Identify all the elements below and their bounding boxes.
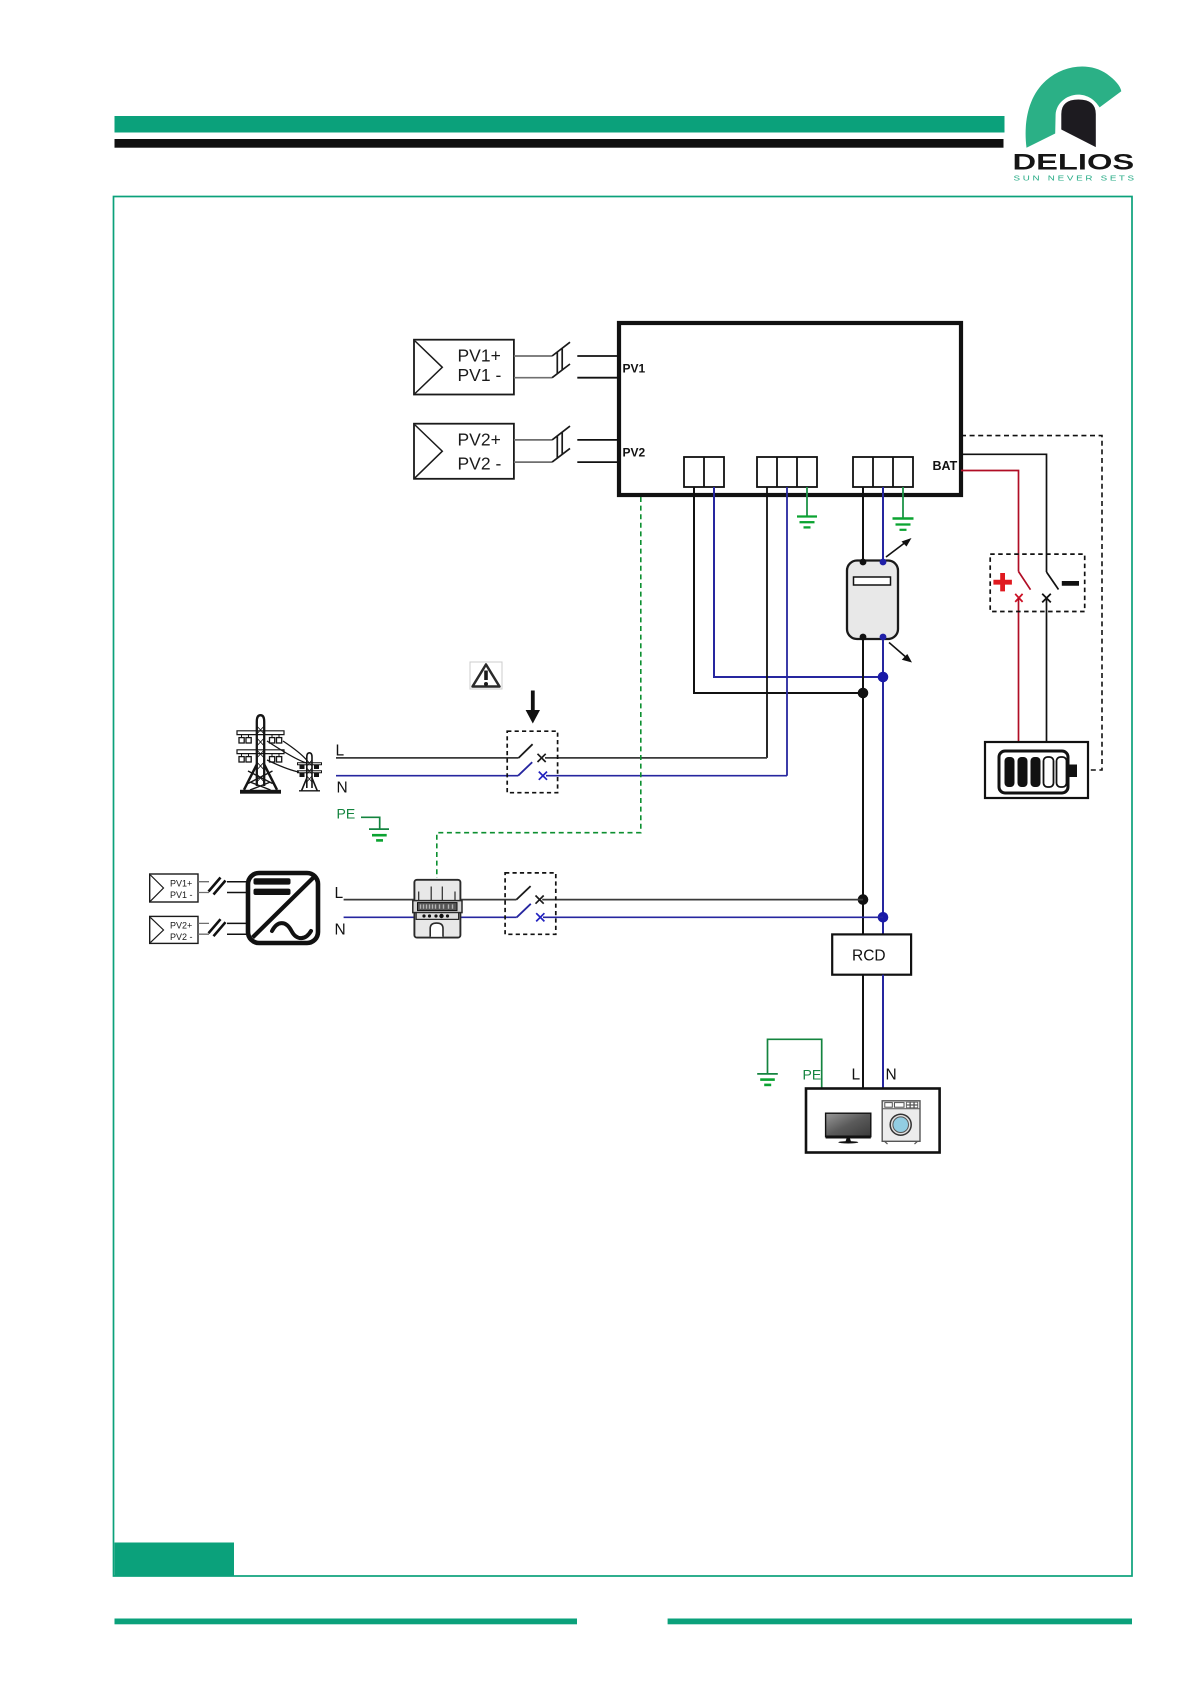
PV2 source chevron bbox=[415, 425, 442, 478]
breaker S1 L x bbox=[538, 754, 546, 762]
breaker S3 plus blade bbox=[1019, 572, 1031, 590]
PV1 string source box bbox=[414, 340, 514, 395]
header green bar bbox=[115, 116, 1005, 133]
AC meter M2 body bbox=[413, 880, 462, 938]
breaker S2 dashed box bbox=[505, 873, 556, 934]
footer rule right bbox=[668, 1619, 1132, 1625]
loads box bbox=[806, 1089, 940, 1153]
node C junction dot bbox=[858, 894, 869, 905]
svg-text:L: L bbox=[852, 1066, 861, 1083]
battery B1 cell 5 bbox=[1057, 757, 1067, 787]
wire PV2+ to inverter bbox=[577, 439, 619, 441]
sPV1 connector mark bbox=[209, 878, 226, 895]
breaker S1 N blade bbox=[518, 762, 532, 776]
washing machine icon bbox=[882, 1101, 920, 1144]
battery B1 icon shell bbox=[999, 751, 1068, 793]
warning sign frame bbox=[470, 662, 502, 689]
breaker S3 dashed box bbox=[990, 554, 1084, 611]
U2 sine wave bbox=[272, 923, 311, 938]
sPV1 chevron bbox=[150, 875, 163, 901]
wire PV1- from source bbox=[514, 377, 552, 379]
svg-text:PE: PE bbox=[803, 1066, 822, 1082]
battery B1 cell 4 bbox=[1044, 757, 1054, 787]
svg-text:PV2 -: PV2 - bbox=[458, 453, 502, 473]
PE wire loads bbox=[768, 1039, 822, 1088]
breaker S2 L blade bbox=[516, 886, 530, 900]
header black bar bbox=[115, 139, 1004, 148]
sPV2 chevron bbox=[150, 917, 163, 942]
TV icon bbox=[826, 1113, 871, 1143]
logo black arch bbox=[1061, 100, 1096, 148]
svg-text:PE: PE bbox=[337, 806, 356, 822]
wire RCD L to loads bbox=[862, 975, 864, 1089]
PE wire grid bbox=[361, 817, 380, 829]
down arrow bbox=[526, 691, 540, 724]
svg-text:L: L bbox=[335, 885, 344, 902]
terminal block TB2 bbox=[757, 457, 817, 487]
sPV2 connector mark bbox=[209, 919, 226, 936]
wire PV1- to inverter bbox=[577, 377, 619, 379]
svg-text:N: N bbox=[335, 922, 346, 939]
wire TB1 N to node B bbox=[714, 487, 883, 677]
node A junction dot bbox=[858, 688, 869, 699]
breaker S2 L x bbox=[536, 896, 544, 904]
AC wire N bbox=[344, 916, 883, 918]
svg-text:PV2 -: PV2 - bbox=[170, 932, 193, 942]
battery B1 terminal nub bbox=[1068, 765, 1077, 778]
content frame bbox=[114, 197, 1133, 1577]
svg-text:PV1+: PV1+ bbox=[458, 346, 501, 366]
wire TB3 L to meter bbox=[862, 487, 864, 562]
ground G2 bbox=[893, 519, 914, 530]
svg-text:RCD: RCD bbox=[852, 948, 886, 965]
meter M1 terminal dot top L bbox=[860, 559, 867, 566]
logo green swoosh bbox=[1026, 66, 1122, 147]
svg-text:S U N N E V E R S E T S: S U N N E V E R S E T S bbox=[1014, 174, 1135, 183]
grid tower small bbox=[298, 753, 322, 791]
terminal block TB3 bbox=[853, 457, 913, 487]
wire plus to battery bbox=[1018, 598, 1020, 742]
ground G3 bbox=[369, 829, 389, 840]
meter M1 arrow down bbox=[889, 643, 912, 663]
battery B1 cell 3 bbox=[1031, 757, 1041, 787]
PV2 string source box bbox=[414, 424, 514, 479]
wire PV1+ from source bbox=[514, 355, 552, 357]
grid tower large bbox=[237, 715, 284, 794]
grid wire L bbox=[336, 757, 767, 759]
AC wire L bbox=[344, 899, 863, 901]
PV1 source chevron bbox=[415, 341, 442, 394]
U2 diagonal bbox=[253, 877, 315, 938]
breaker S3 plus sign bbox=[993, 573, 1012, 591]
svg-text:N: N bbox=[337, 780, 348, 797]
wire PV2- to inverter bbox=[577, 461, 619, 463]
inverter U1 box bbox=[619, 323, 961, 495]
PV source sPV2 box bbox=[150, 916, 198, 943]
wire TB3 N to meter bbox=[882, 487, 884, 562]
RCD box bbox=[832, 934, 911, 974]
sPV1 wires to inverter icon bbox=[227, 882, 246, 893]
wire RCD N to loads bbox=[882, 975, 884, 1089]
sPV1 wires to connector bbox=[198, 882, 209, 893]
meter M1 display window bbox=[854, 577, 891, 585]
breaker S3 plus x bbox=[1015, 594, 1022, 602]
wire TB2 PE bbox=[806, 487, 808, 517]
battery B1 cell 1 bbox=[1005, 757, 1015, 787]
warning sign triangle bbox=[473, 665, 500, 687]
breaker S1 N x bbox=[539, 772, 547, 780]
meter M1 terminal dot bottom N bbox=[880, 634, 887, 641]
svg-text:PV1: PV1 bbox=[623, 362, 646, 376]
ground G1 bbox=[797, 517, 817, 528]
breaker S3 minus x bbox=[1042, 594, 1051, 603]
connector J2 blades bbox=[552, 426, 570, 462]
terminal block TB1 bbox=[684, 457, 724, 487]
svg-text:PV1 -: PV1 - bbox=[170, 890, 193, 900]
PV source sPV1 box bbox=[150, 874, 198, 902]
svg-text:BAT: BAT bbox=[933, 459, 958, 473]
wire TB3 PE bbox=[902, 487, 904, 519]
svg-text:PV2+: PV2+ bbox=[458, 429, 501, 449]
grid-tie inverter U2 icon bbox=[248, 873, 318, 943]
battery B1 outer box bbox=[985, 742, 1088, 798]
svg-text:PV2+: PV2+ bbox=[170, 921, 192, 931]
wire BAT minus bbox=[961, 454, 1047, 572]
ground G4 bbox=[757, 1074, 778, 1085]
svg-text:L: L bbox=[336, 743, 345, 760]
svg-text:N: N bbox=[886, 1066, 897, 1083]
wire TB2 N to grid N bbox=[786, 487, 788, 776]
wire BAT comm dashed bbox=[961, 436, 1102, 770]
wire PV2- from source bbox=[514, 461, 552, 463]
connector J2 ticks bbox=[557, 432, 562, 458]
U2 DC bar 2 bbox=[254, 889, 291, 895]
wire TB1 L to node A bbox=[694, 487, 863, 693]
battery B1 cell 2 bbox=[1018, 757, 1028, 787]
svg-text:DELIOS: DELIOS bbox=[1013, 150, 1135, 175]
footer rule left bbox=[115, 1619, 578, 1625]
node D junction dot bbox=[878, 912, 889, 923]
meter M1 terminal dot bottom L bbox=[860, 634, 867, 641]
breaker S2 N blade bbox=[517, 904, 531, 918]
energy meter M1 body bbox=[847, 561, 898, 640]
breaker S2 N x bbox=[536, 913, 544, 921]
node B junction dot bbox=[878, 672, 889, 683]
sPV2 wires to inverter icon bbox=[227, 923, 246, 934]
footer green block bbox=[115, 1543, 235, 1577]
breaker S3 minus blade bbox=[1047, 572, 1059, 590]
connector J1 ticks bbox=[557, 348, 562, 374]
breaker S1 dashed box bbox=[507, 731, 557, 793]
wire PV1+ to inverter bbox=[577, 355, 619, 357]
breaker S3 minus sign bbox=[1062, 581, 1079, 586]
svg-text:PV1+: PV1+ bbox=[170, 879, 192, 889]
wire minus to battery bbox=[1046, 598, 1048, 742]
PE dashed link inverter to meter bbox=[437, 497, 641, 878]
wire BAT plus bbox=[961, 471, 1019, 572]
warning sign exclamation bbox=[484, 671, 488, 681]
sPV2 wires to connector bbox=[198, 923, 209, 934]
wire meter L down to RCD bbox=[862, 639, 864, 934]
wire TB2 L to grid L bbox=[766, 487, 768, 758]
meter M1 terminal dot top N bbox=[880, 559, 887, 566]
svg-text:PV1 -: PV1 - bbox=[458, 365, 502, 385]
U2 DC bar 1 bbox=[254, 878, 291, 884]
wire PV2+ from source bbox=[514, 439, 552, 441]
meter M1 arrow up bbox=[886, 538, 912, 557]
breaker S1 L blade bbox=[519, 744, 533, 758]
connector J1 blades bbox=[552, 342, 570, 378]
wire meter N down to RCD bbox=[882, 639, 884, 934]
grid drop wires bbox=[267, 741, 308, 772]
svg-text:PV2: PV2 bbox=[623, 446, 646, 460]
grid wire N bbox=[336, 775, 787, 777]
